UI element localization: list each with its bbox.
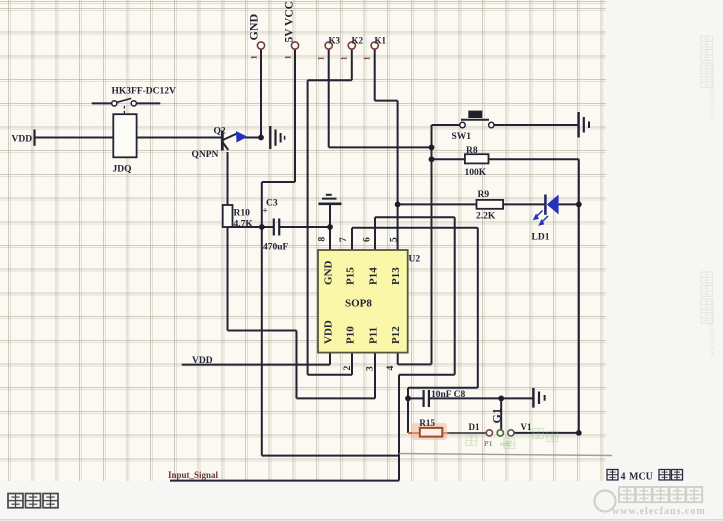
svg-text:2.2K: 2.2K bbox=[476, 212, 496, 222]
svg-text:V1: V1 bbox=[521, 422, 532, 432]
svg-text:P11: P11 bbox=[368, 327, 380, 344]
svg-text:GND: GND bbox=[247, 14, 261, 41]
svg-text:7: 7 bbox=[339, 237, 349, 242]
svg-text:R9: R9 bbox=[478, 190, 490, 200]
svg-text:Input_Signal: Input_Signal bbox=[168, 470, 219, 480]
svg-text:HK3FF-DC12V: HK3FF-DC12V bbox=[112, 87, 177, 97]
svg-text:1: 1 bbox=[339, 56, 349, 60]
svg-text:P15: P15 bbox=[345, 267, 357, 285]
svg-text:VDD: VDD bbox=[323, 320, 335, 344]
svg-text:P1: P1 bbox=[484, 439, 493, 448]
svg-text:1: 1 bbox=[316, 56, 326, 60]
svg-text:QNPN: QNPN bbox=[192, 150, 219, 160]
svg-text:K2: K2 bbox=[352, 36, 364, 46]
svg-text:470uF: 470uF bbox=[263, 243, 289, 253]
svg-text:4: 4 bbox=[386, 366, 396, 371]
svg-text:VDD: VDD bbox=[192, 356, 213, 366]
svg-text:2: 2 bbox=[343, 366, 353, 371]
svg-text:JDQ: JDQ bbox=[113, 165, 132, 175]
svg-text:U2: U2 bbox=[409, 255, 421, 265]
svg-text:6: 6 bbox=[363, 237, 373, 242]
svg-text:100K: 100K bbox=[465, 168, 487, 178]
svg-text:5V VCC: 5V VCC bbox=[284, 1, 296, 42]
svg-text:SOP8: SOP8 bbox=[345, 298, 372, 310]
svg-text:D1: D1 bbox=[469, 422, 480, 432]
svg-text:K3: K3 bbox=[329, 36, 341, 46]
svg-text:LD1: LD1 bbox=[532, 233, 550, 243]
svg-text:1: 1 bbox=[362, 56, 372, 60]
svg-text:1: 1 bbox=[249, 55, 259, 59]
svg-text:R10: R10 bbox=[234, 209, 251, 219]
svg-text:P12: P12 bbox=[390, 326, 402, 344]
svg-text:10nF C8: 10nF C8 bbox=[431, 390, 465, 400]
svg-text:R15: R15 bbox=[419, 418, 435, 428]
svg-text:www.elecfans.com: www.elecfans.com bbox=[707, 61, 716, 120]
svg-text:4.7K: 4.7K bbox=[234, 220, 254, 230]
svg-text:www.elecfans.com: www.elecfans.com bbox=[612, 506, 706, 517]
svg-text:VDD: VDD bbox=[12, 135, 33, 145]
svg-text:P10: P10 bbox=[345, 326, 357, 344]
svg-text:R8: R8 bbox=[466, 146, 478, 156]
svg-text:8: 8 bbox=[317, 237, 327, 242]
svg-text:3: 3 bbox=[366, 366, 376, 371]
svg-text:SW1: SW1 bbox=[452, 132, 472, 142]
svg-text:G1: G1 bbox=[490, 408, 504, 423]
svg-text:K1: K1 bbox=[375, 36, 387, 46]
svg-text:www.elecfans.com: www.elecfans.com bbox=[707, 297, 716, 356]
svg-text:C3: C3 bbox=[266, 199, 278, 209]
svg-text:P13: P13 bbox=[390, 267, 402, 285]
svg-text:+: + bbox=[263, 206, 268, 216]
svg-text:GND: GND bbox=[323, 261, 335, 286]
svg-text:MCU: MCU bbox=[629, 472, 653, 483]
svg-text:eek!: eek! bbox=[500, 440, 512, 448]
svg-text:4: 4 bbox=[621, 472, 626, 483]
svg-text:P14: P14 bbox=[368, 267, 380, 285]
svg-text:1: 1 bbox=[283, 55, 293, 59]
svg-text:5: 5 bbox=[390, 237, 400, 242]
svg-text:Q2: Q2 bbox=[214, 127, 226, 137]
